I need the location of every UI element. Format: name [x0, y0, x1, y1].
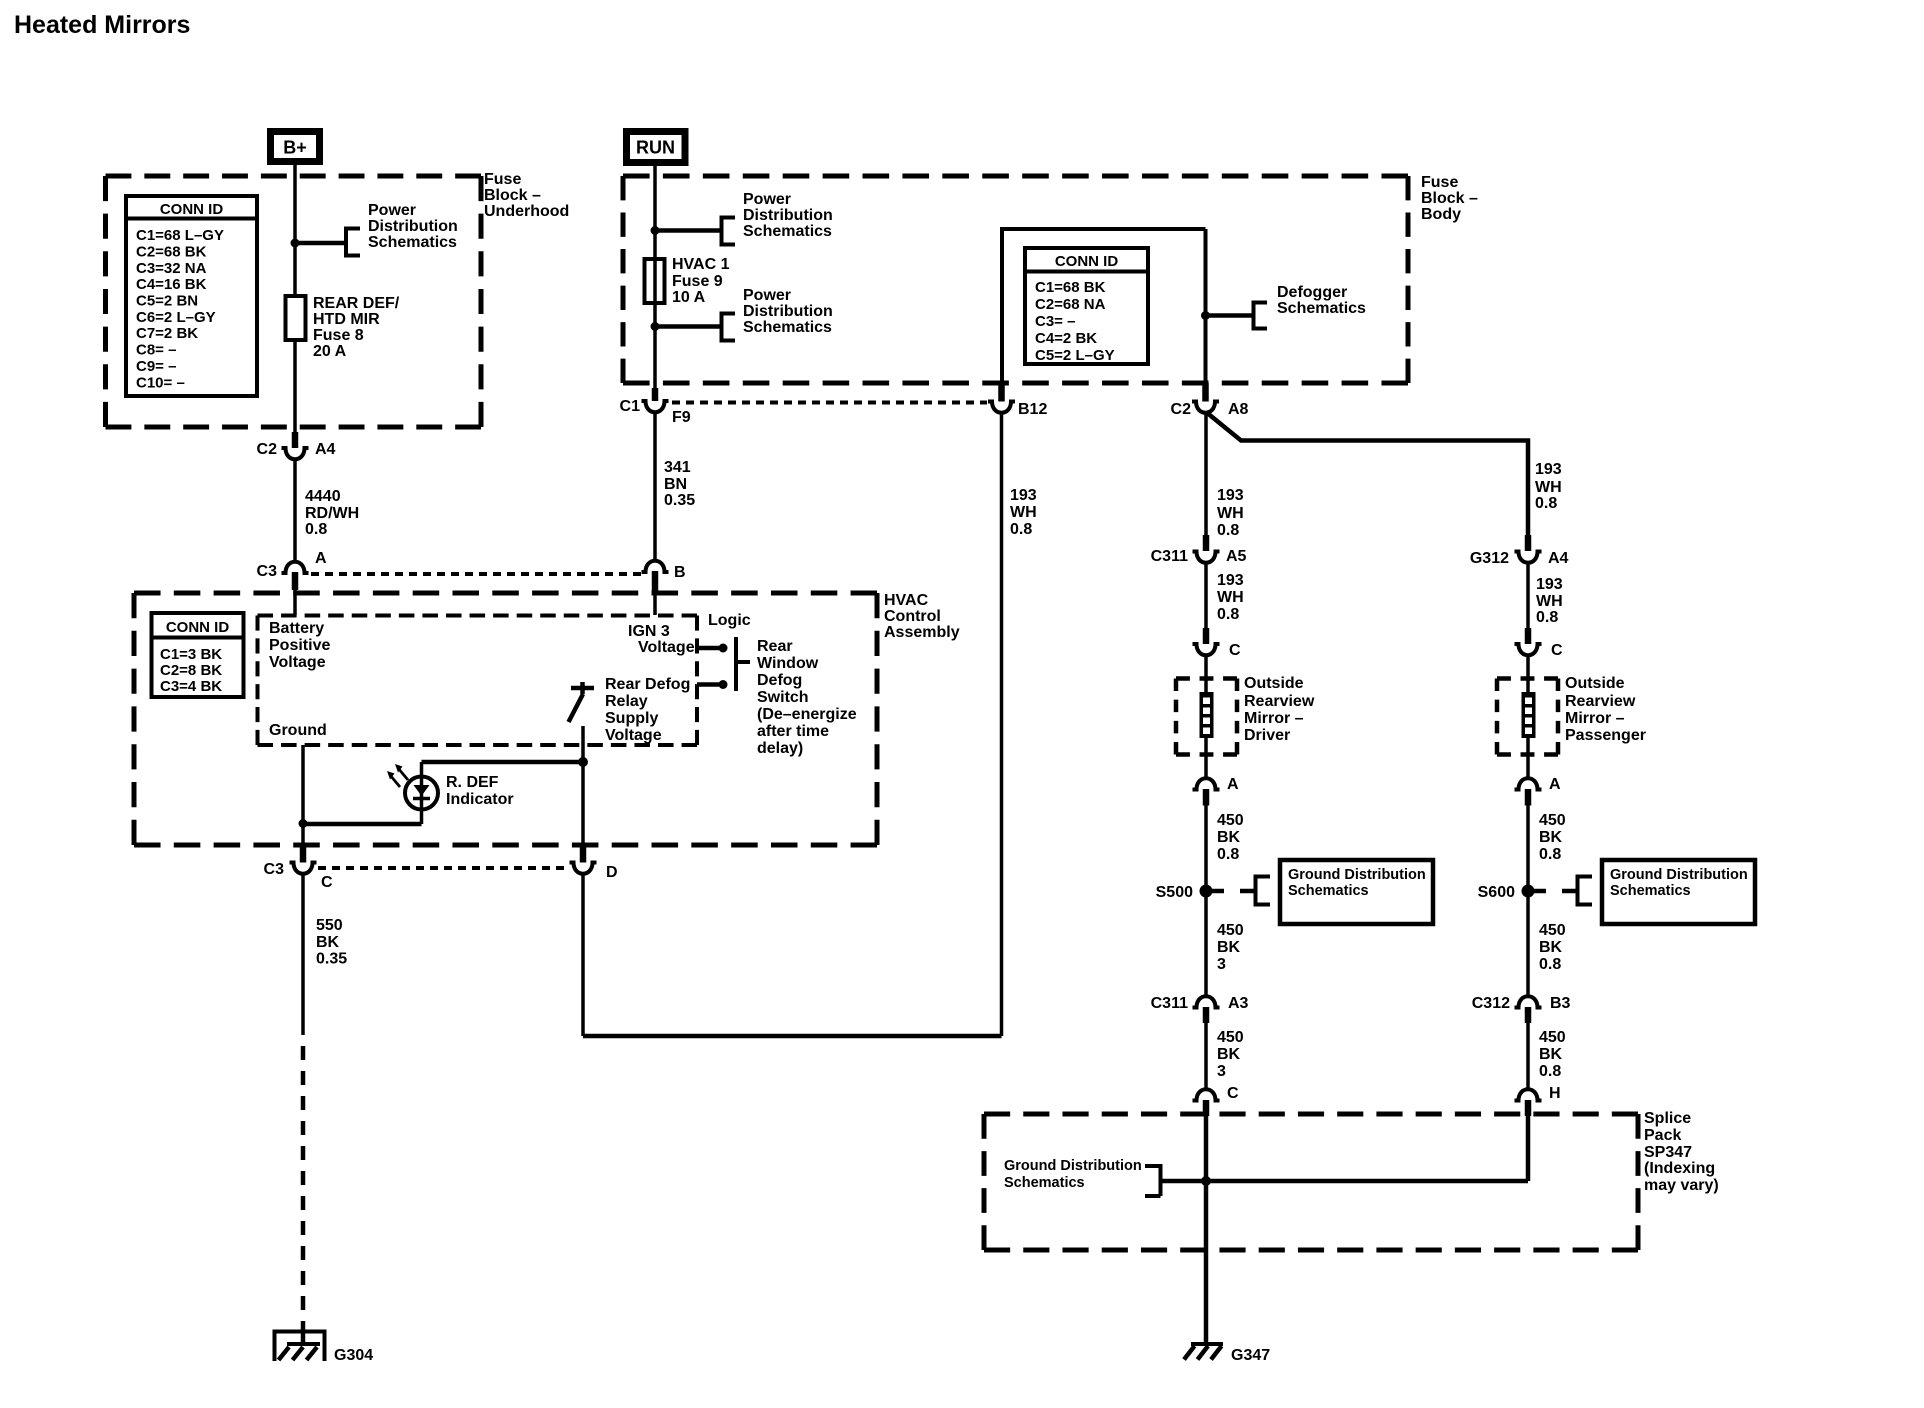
svg-text:Fuse 8: Fuse 8 [313, 327, 364, 344]
svg-text:C4=2 BK: C4=2 BK [1035, 330, 1097, 347]
svg-text:C3=32 NA: C3=32 NA [136, 260, 207, 277]
svg-text:IGN 3: IGN 3 [628, 623, 670, 640]
svg-text:450: 450 [1539, 1029, 1566, 1046]
svg-text:HVAC: HVAC [884, 592, 929, 609]
svg-text:Positive: Positive [269, 637, 330, 654]
svg-text:Pack: Pack [1644, 1127, 1681, 1144]
svg-text:0.8: 0.8 [1539, 956, 1561, 973]
svg-text:C4=16 BK: C4=16 BK [136, 276, 207, 293]
svg-text:Power: Power [743, 287, 791, 304]
svg-text:BK: BK [1539, 1046, 1563, 1063]
svg-text:C2=68 NA: C2=68 NA [1035, 296, 1106, 313]
svg-text:0.8: 0.8 [1539, 846, 1561, 863]
svg-text:Mirror –: Mirror – [1565, 710, 1625, 727]
svg-text:C1=68 L–GY: C1=68 L–GY [136, 227, 224, 244]
svg-text:Splice: Splice [1644, 1110, 1691, 1127]
svg-text:Block –: Block – [1421, 190, 1478, 207]
svg-text:(De–energize: (De–energize [757, 706, 857, 723]
svg-text:may vary): may vary) [1644, 1177, 1719, 1194]
svg-text:193: 193 [1536, 576, 1563, 593]
svg-text:G347: G347 [1231, 1347, 1270, 1364]
svg-text:Schematics: Schematics [368, 234, 457, 251]
svg-text:C10= –: C10= – [136, 375, 185, 392]
svg-text:C311: C311 [1151, 995, 1188, 1012]
svg-text:SP347: SP347 [1644, 1144, 1692, 1161]
svg-text:Defogger: Defogger [1277, 284, 1347, 301]
svg-text:B12: B12 [1018, 401, 1047, 418]
svg-text:Indicator: Indicator [446, 791, 514, 808]
svg-text:C2=68 BK: C2=68 BK [136, 244, 207, 261]
svg-text:BK: BK [1217, 939, 1241, 956]
svg-text:C5=2 L–GY: C5=2 L–GY [1035, 347, 1115, 364]
svg-text:Rear: Rear [757, 638, 793, 655]
svg-text:G304: G304 [334, 1347, 373, 1364]
svg-text:C2: C2 [257, 441, 278, 458]
svg-text:3: 3 [1217, 1063, 1226, 1080]
svg-text:G312: G312 [1470, 550, 1509, 567]
svg-text:delay): delay) [757, 740, 803, 757]
svg-text:A: A [1549, 776, 1561, 793]
svg-text:C312: C312 [1472, 995, 1510, 1012]
svg-text:Schematics: Schematics [1610, 883, 1691, 899]
svg-text:193: 193 [1010, 487, 1037, 504]
svg-text:193: 193 [1535, 461, 1562, 478]
svg-text:Rear Defog: Rear Defog [605, 676, 690, 693]
svg-text:C3= –: C3= – [1035, 313, 1075, 330]
svg-text:Defog: Defog [757, 672, 802, 689]
svg-text:(Indexing: (Indexing [1644, 1160, 1715, 1177]
svg-text:550: 550 [316, 917, 343, 934]
svg-text:HTD MIR: HTD MIR [313, 311, 380, 328]
svg-text:0.8: 0.8 [1217, 522, 1239, 539]
svg-text:4440: 4440 [305, 488, 341, 505]
svg-text:193: 193 [1217, 487, 1244, 504]
svg-text:450: 450 [1217, 812, 1244, 829]
svg-text:C: C [1229, 642, 1241, 659]
svg-text:10 A: 10 A [672, 289, 706, 306]
svg-text:C1: C1 [620, 398, 641, 415]
svg-text:Driver: Driver [1244, 727, 1290, 744]
svg-text:450: 450 [1217, 1029, 1244, 1046]
svg-text:Rearview: Rearview [1244, 693, 1315, 710]
svg-text:R. DEF: R. DEF [446, 774, 499, 791]
svg-text:450: 450 [1539, 812, 1566, 829]
svg-text:Switch: Switch [757, 689, 809, 706]
svg-text:0.8: 0.8 [1217, 606, 1239, 623]
svg-text:Power: Power [368, 202, 416, 219]
svg-text:F9: F9 [672, 409, 691, 426]
svg-text:B: B [674, 564, 686, 581]
svg-text:WH: WH [1217, 505, 1244, 522]
svg-text:3: 3 [1217, 956, 1226, 973]
svg-text:C: C [1227, 1085, 1239, 1102]
svg-text:C2=8 BK: C2=8 BK [160, 662, 222, 679]
svg-text:Underhood: Underhood [484, 203, 569, 220]
svg-text:450: 450 [1217, 922, 1244, 939]
svg-text:0.35: 0.35 [664, 492, 695, 509]
svg-text:C3: C3 [257, 563, 278, 580]
svg-text:Control: Control [884, 608, 941, 625]
svg-text:REAR DEF/: REAR DEF/ [313, 295, 400, 312]
svg-text:Ground Distribution: Ground Distribution [1288, 867, 1426, 883]
svg-text:RD/WH: RD/WH [305, 505, 359, 522]
svg-text:Ground: Ground [269, 722, 327, 739]
svg-text:C3: C3 [264, 861, 285, 878]
svg-text:A8: A8 [1228, 401, 1249, 418]
svg-text:HVAC 1: HVAC 1 [672, 256, 730, 273]
svg-text:C8= –: C8= – [136, 342, 176, 359]
svg-text:C1=68 BK: C1=68 BK [1035, 279, 1106, 296]
svg-text:BK: BK [316, 934, 340, 951]
svg-text:Outside: Outside [1565, 675, 1625, 692]
svg-text:Passenger: Passenger [1565, 727, 1646, 744]
svg-text:Mirror –: Mirror – [1244, 710, 1304, 727]
svg-text:Block –: Block – [484, 187, 541, 204]
svg-text:C3=4 BK: C3=4 BK [160, 678, 222, 695]
svg-text:Ground Distribution: Ground Distribution [1610, 867, 1748, 883]
svg-text:Outside: Outside [1244, 675, 1304, 692]
svg-text:CONN ID: CONN ID [166, 619, 230, 636]
svg-text:Schematics: Schematics [743, 319, 832, 336]
svg-text:WH: WH [1535, 479, 1562, 496]
svg-text:B+: B+ [283, 138, 307, 158]
svg-text:C6=2 L–GY: C6=2 L–GY [136, 309, 216, 326]
svg-text:0.8: 0.8 [1535, 495, 1557, 512]
svg-text:Window: Window [757, 655, 819, 672]
svg-text:C1=3 BK: C1=3 BK [160, 646, 222, 663]
svg-text:Power: Power [743, 191, 791, 208]
svg-text:450: 450 [1539, 922, 1566, 939]
svg-text:20 A: 20 A [313, 343, 347, 360]
svg-text:BK: BK [1217, 829, 1241, 846]
svg-text:Assembly: Assembly [884, 624, 960, 641]
svg-text:A: A [315, 550, 327, 567]
svg-text:Logic: Logic [708, 612, 751, 629]
svg-text:Fuse: Fuse [484, 171, 521, 188]
svg-text:Schematics: Schematics [1004, 1175, 1085, 1191]
svg-text:0.8: 0.8 [305, 521, 327, 538]
svg-text:BK: BK [1539, 939, 1563, 956]
svg-text:WH: WH [1217, 589, 1244, 606]
svg-text:S600: S600 [1478, 884, 1515, 901]
svg-text:A3: A3 [1228, 995, 1249, 1012]
svg-text:Fuse 9: Fuse 9 [672, 273, 723, 290]
svg-text:A4: A4 [315, 441, 336, 458]
svg-text:Body: Body [1421, 206, 1461, 223]
svg-text:WH: WH [1536, 593, 1563, 610]
svg-text:C: C [321, 874, 333, 891]
svg-text:Relay: Relay [605, 693, 648, 710]
svg-text:Distribution: Distribution [368, 218, 458, 235]
svg-text:BN: BN [664, 476, 687, 493]
svg-text:C311: C311 [1151, 548, 1188, 565]
svg-text:Distribution: Distribution [743, 207, 833, 224]
svg-text:0.8: 0.8 [1217, 846, 1239, 863]
svg-text:WH: WH [1010, 504, 1037, 521]
svg-text:Battery: Battery [269, 620, 324, 637]
svg-text:Supply: Supply [605, 710, 658, 727]
svg-text:C: C [1551, 642, 1563, 659]
svg-text:0.35: 0.35 [316, 951, 347, 968]
svg-text:D: D [606, 864, 618, 881]
svg-text:BK: BK [1217, 1046, 1241, 1063]
svg-text:A4: A4 [1548, 550, 1569, 567]
svg-text:Voltage: Voltage [269, 654, 326, 671]
svg-text:Ground Distribution: Ground Distribution [1004, 1158, 1142, 1174]
svg-text:B3: B3 [1550, 995, 1571, 1012]
svg-text:193: 193 [1217, 572, 1244, 589]
svg-text:0.8: 0.8 [1010, 521, 1032, 538]
svg-text:C7=2 BK: C7=2 BK [136, 325, 198, 342]
svg-text:Distribution: Distribution [743, 303, 833, 320]
svg-text:S500: S500 [1156, 884, 1193, 901]
svg-text:BK: BK [1539, 829, 1563, 846]
svg-text:341: 341 [664, 459, 691, 476]
svg-text:C5=2 BN: C5=2 BN [136, 293, 198, 310]
svg-text:0.8: 0.8 [1536, 609, 1558, 626]
svg-text:A: A [1227, 776, 1239, 793]
svg-text:C2: C2 [1171, 401, 1192, 418]
svg-text:Fuse: Fuse [1421, 174, 1458, 191]
svg-text:Schematics: Schematics [743, 223, 832, 240]
svg-text:H: H [1549, 1085, 1561, 1102]
svg-text:Voltage: Voltage [638, 639, 695, 656]
svg-text:CONN ID: CONN ID [160, 201, 224, 218]
svg-text:Schematics: Schematics [1288, 883, 1369, 899]
svg-text:C9= –: C9= – [136, 358, 176, 375]
svg-text:after time: after time [757, 723, 829, 740]
svg-text:Schematics: Schematics [1277, 300, 1366, 317]
svg-text:CONN ID: CONN ID [1055, 253, 1119, 270]
svg-text:0.8: 0.8 [1539, 1063, 1561, 1080]
svg-text:Voltage: Voltage [605, 727, 662, 744]
svg-text:Rearview: Rearview [1565, 693, 1636, 710]
svg-text:RUN: RUN [636, 138, 675, 158]
svg-text:Heated Mirrors: Heated Mirrors [14, 11, 190, 39]
svg-text:A5: A5 [1226, 548, 1247, 565]
